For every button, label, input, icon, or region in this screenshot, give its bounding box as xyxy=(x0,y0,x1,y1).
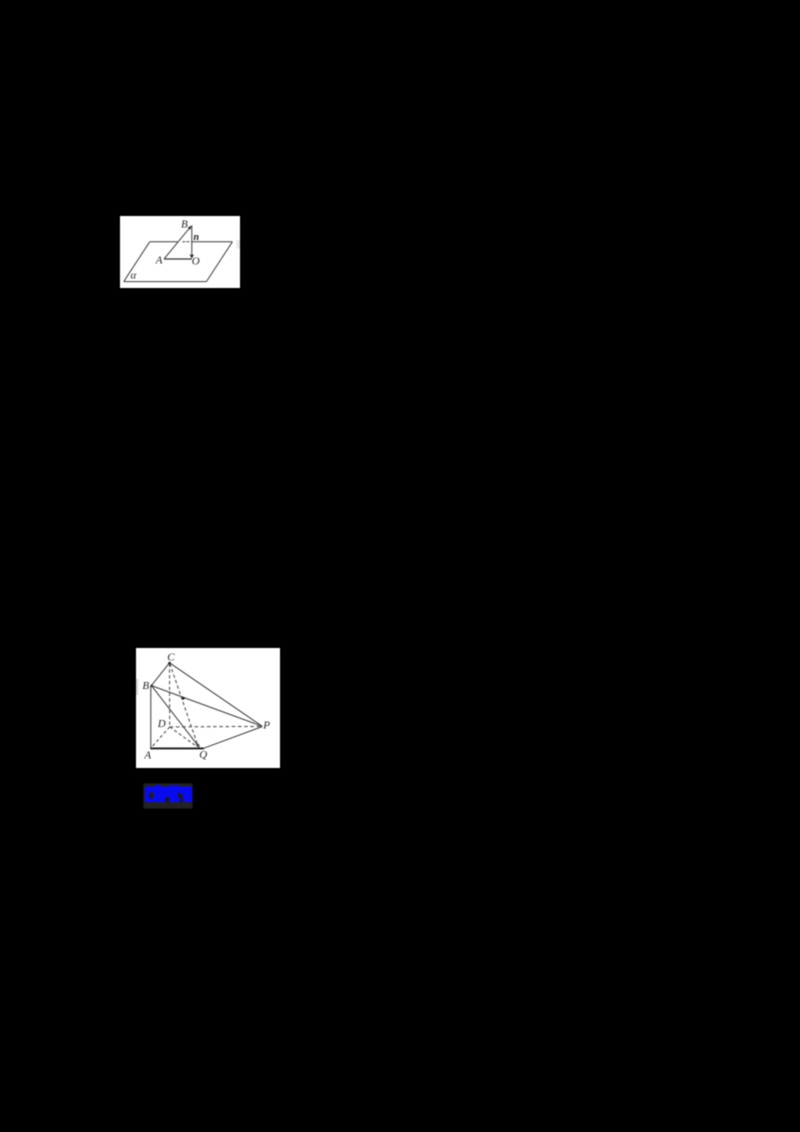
dashed D P xyxy=(170,725,261,728)
edge Q P xyxy=(204,727,262,749)
edge C P xyxy=(170,663,263,727)
segment A O xyxy=(164,258,192,260)
normal vector n line from B down to O xyxy=(191,225,193,254)
dashed C Q xyxy=(170,664,198,747)
dashed C D xyxy=(169,664,171,727)
dot at B xyxy=(150,685,152,687)
vector A to B arrow line xyxy=(164,228,190,259)
blue highlighted tag block xyxy=(143,783,193,809)
blue band xyxy=(145,787,192,803)
plane top edge solid right part xyxy=(192,241,233,243)
figure 2: solid B-ACQ-P xyxy=(136,648,280,768)
edge A Q thick bottom xyxy=(150,747,204,749)
plane right edge xyxy=(206,242,232,282)
plane alpha parallelogram left edge xyxy=(124,242,150,282)
svg-text:α: α xyxy=(131,270,137,282)
dashed D Q xyxy=(170,727,197,746)
arrowhead at O pointing down xyxy=(190,255,194,259)
dark wedge right (bracket gap) xyxy=(178,792,184,798)
plane top edge solid left part xyxy=(150,241,178,243)
plane bottom edge xyxy=(124,281,207,283)
dark notch bottom right xyxy=(180,797,183,802)
svg-text:Q: Q xyxy=(199,749,207,761)
arrowhead at B xyxy=(188,226,192,230)
dot on BP at intersection with CQ xyxy=(182,697,185,700)
dark notch bottom center xyxy=(165,797,169,802)
svg-text:P: P xyxy=(262,720,270,732)
blue top bumps xyxy=(155,785,160,788)
svg-text:A: A xyxy=(155,255,163,267)
svg-text:O: O xyxy=(192,255,200,267)
plane top edge hidden dashed part xyxy=(182,241,190,243)
dot at C xyxy=(168,662,171,665)
faint scrollbar artifact right edge xyxy=(236,240,240,249)
svg-text:B: B xyxy=(142,680,149,692)
edge B C xyxy=(151,663,169,686)
small circle near Q xyxy=(197,744,199,746)
dark gap inside left bracket xyxy=(149,792,153,798)
svg-text:A: A xyxy=(143,750,151,762)
edge A B vertical xyxy=(150,686,152,749)
svg-text:D: D xyxy=(157,718,166,730)
svg-text:B: B xyxy=(181,218,188,230)
dark background plate xyxy=(144,784,193,809)
svg-text:n: n xyxy=(194,232,200,243)
dashed D A xyxy=(151,727,169,748)
svg-text:C: C xyxy=(167,651,175,663)
faint artifact left edge xyxy=(136,679,138,695)
figure 1: plane alpha with normal vector n xyxy=(120,216,240,288)
edge B P xyxy=(151,686,262,727)
edge B Q xyxy=(151,686,199,748)
